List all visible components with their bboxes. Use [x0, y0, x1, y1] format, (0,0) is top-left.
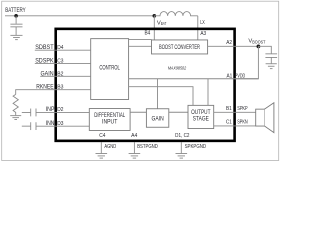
svg-text:D1, C2: D1, C2 — [175, 133, 189, 139]
wire control to output stage — [129, 87, 193, 106]
ground AGND — [96, 154, 108, 159]
svg-text:SDBST: SDBST — [35, 45, 54, 51]
svg-text:RKNEE: RKNEE — [36, 85, 53, 91]
svg-text:INN: INN — [46, 121, 55, 127]
wire GAIN — [40, 75, 90, 77]
svg-text:C3: C3 — [57, 58, 63, 64]
svg-text:SPKP: SPKP — [237, 106, 248, 112]
wire control to boost — [129, 45, 152, 47]
wire INP left lead — [22, 111, 31, 113]
wire BSTPGND stub — [133, 142, 135, 153]
ground resistor — [10, 116, 21, 120]
ground battery cap — [10, 35, 22, 39]
svg-text:LX: LX — [200, 20, 205, 26]
inductor L1 — [154, 12, 198, 16]
wire diff to gain — [130, 111, 146, 113]
svg-text:D2: D2 — [57, 107, 63, 113]
svg-text:C4: C4 — [99, 133, 105, 139]
capacitor boost output — [265, 54, 277, 64]
svg-text:SPKPGND: SPKPGND — [185, 144, 207, 150]
svg-text:A2: A2 — [226, 40, 232, 46]
ground BSTPGND — [129, 154, 141, 159]
ground SPKPGND — [176, 154, 188, 159]
svg-text:AGND: AGND — [104, 144, 116, 150]
wire SPKPGND stub — [180, 142, 182, 153]
ground boost cap — [266, 64, 277, 69]
block GAIN — [146, 109, 168, 128]
svg-text:B2: B2 — [57, 71, 63, 77]
svg-text:A3: A3 — [200, 31, 206, 37]
wire VBOOST to PVDD — [235, 46, 259, 78]
wire INP — [36, 111, 89, 113]
svg-text:D4: D4 — [57, 45, 63, 51]
wire VBOOST to cap — [258, 46, 271, 53]
svg-text:GAIN: GAIN — [152, 115, 164, 122]
wire SDBST — [35, 49, 91, 51]
svg-text:MAX98502: MAX98502 — [168, 66, 187, 72]
wire drop to output stage pvdd — [207, 79, 209, 106]
svg-text:INP: INP — [46, 107, 55, 113]
svg-text:A4: A4 — [131, 133, 137, 139]
wire SDSPK — [35, 62, 91, 64]
junction VBOOST node — [257, 44, 261, 48]
speaker LS1 — [256, 109, 265, 126]
block OUTPUT STAGE — [188, 105, 214, 128]
svg-text:BOOST CONVERTER: BOOST CONVERTER — [159, 44, 200, 51]
wire control to boost top link — [129, 38, 152, 40]
junction VBAT node — [153, 14, 157, 18]
wire INN left lead — [22, 125, 31, 127]
svg-text:VBAT: VBAT — [157, 20, 167, 26]
block BOOST CONVERTER — [152, 40, 208, 54]
wire battery rail — [5, 15, 154, 17]
wire VBAT pin B4 drop — [153, 16, 155, 40]
block DIFFERENTIAL INPUT — [89, 109, 130, 131]
svg-text:CONTROL: CONTROL — [99, 65, 120, 72]
svg-text:SDSPK: SDSPK — [35, 58, 53, 64]
capacitor battery bypass — [10, 16, 22, 35]
svg-text:C1: C1 — [226, 119, 232, 125]
svg-text:BSTPGND: BSTPGND — [137, 144, 158, 150]
wire gain to output stage — [169, 111, 188, 113]
svg-text:INPUT: INPUT — [102, 119, 118, 126]
svg-text:B4: B4 — [145, 31, 151, 37]
junction battery node — [14, 14, 18, 18]
svg-text:STAGE: STAGE — [193, 115, 209, 122]
svg-text:VBOOST: VBOOST — [248, 39, 265, 45]
figure frame — [2, 1, 279, 160]
capacitor INN — [31, 122, 36, 130]
wire INN — [36, 125, 89, 127]
svg-text:D3: D3 — [57, 121, 63, 127]
svg-text:GAIN: GAIN — [41, 71, 54, 77]
wire control to pvdd rail — [129, 78, 259, 80]
svg-text:SPKN: SPKN — [237, 119, 248, 125]
wire SPKN — [214, 125, 256, 127]
wire drop to gain — [157, 79, 159, 109]
capacitor INP — [31, 109, 36, 117]
svg-text:BATTERY: BATTERY — [5, 8, 26, 14]
resistor RKNEE — [13, 94, 18, 115]
wire LX pin A3 drop — [197, 16, 199, 40]
svg-text:B1: B1 — [226, 106, 232, 112]
wire SPKP — [214, 111, 256, 113]
IC U1 MAX98502 outline — [56, 29, 235, 141]
wire AGND stub — [100, 142, 102, 153]
svg-text:B3: B3 — [57, 85, 63, 91]
wire VBST A2 — [208, 45, 259, 47]
wire RKNEE — [16, 90, 91, 95]
block CONTROL — [91, 39, 129, 100]
